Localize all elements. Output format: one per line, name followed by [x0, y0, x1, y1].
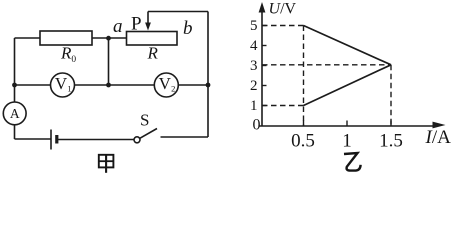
svg-text:R0: R0	[60, 43, 76, 65]
y ticks	[262, 26, 267, 106]
svg-text:A: A	[10, 106, 20, 121]
svg-text:2: 2	[171, 84, 175, 94]
node a junction dot	[106, 36, 111, 41]
wire bottom left to battery	[15, 138, 52, 140]
svg-text:a: a	[113, 16, 123, 37]
svg-text:P: P	[131, 14, 142, 35]
wire slider top to right rail	[148, 11, 208, 13]
svg-text:S: S	[140, 111, 149, 130]
label jia (circuit caption)	[99, 155, 114, 173]
node mid voltmeter junction	[106, 83, 111, 88]
rheostat R body	[127, 32, 178, 46]
battery cell	[51, 130, 57, 150]
svg-text:3: 3	[250, 58, 258, 74]
switch S	[134, 129, 157, 143]
wire right vertical rail	[207, 12, 209, 138]
svg-text:U/V: U/V	[269, 1, 297, 18]
x ticks	[304, 121, 392, 127]
wire battery to switch	[57, 139, 134, 141]
slider P arrow	[145, 12, 151, 31]
node left voltmeter junction	[12, 83, 17, 88]
svg-text:5: 5	[250, 18, 258, 34]
svg-text:2: 2	[250, 78, 258, 94]
y-axis	[261, 10, 263, 126]
voltmeter V1	[51, 73, 75, 97]
svg-text:V: V	[55, 74, 68, 93]
dashed guide I=1.5	[390, 65, 392, 126]
wire left vertical	[14, 38, 16, 139]
x tick labels	[291, 131, 403, 152]
label yi (graph caption)	[344, 153, 361, 171]
svg-text:b: b	[183, 18, 193, 39]
svg-text:1: 1	[67, 84, 71, 94]
dashed guide U=3	[262, 64, 391, 66]
svg-text:R: R	[147, 43, 159, 62]
resistor R0	[40, 31, 92, 45]
svg-text:V: V	[159, 74, 172, 93]
svg-text:0.5: 0.5	[291, 131, 315, 152]
curve upper U-I line	[304, 26, 392, 65]
wire R0 to node a	[92, 37, 127, 39]
svg-text:1: 1	[250, 98, 258, 114]
voltmeter V2	[154, 73, 178, 97]
svg-text:1: 1	[342, 131, 352, 152]
wire node a down	[108, 38, 110, 85]
node right voltmeter junction	[206, 83, 211, 88]
svg-text:0: 0	[253, 117, 261, 134]
ammeter A	[3, 102, 26, 125]
dashed guide U=5	[262, 25, 304, 27]
svg-text:4: 4	[250, 38, 258, 54]
svg-text:1.5: 1.5	[379, 131, 403, 152]
dashed guide I=0.5	[303, 26, 305, 127]
curve lower U-I line	[304, 65, 392, 106]
wire top left horizontal	[15, 37, 41, 39]
y tick labels	[250, 18, 261, 134]
wire switch to right rail	[161, 136, 209, 138]
dashed guide U=1	[262, 105, 304, 107]
x-axis	[259, 125, 434, 127]
wire voltmeter row	[15, 84, 209, 86]
svg-text:I/A: I/A	[425, 127, 452, 148]
